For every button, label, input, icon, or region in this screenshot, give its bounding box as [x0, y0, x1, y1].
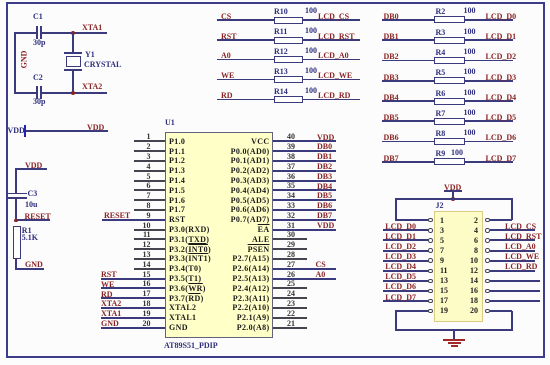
- resistor R7: [434, 118, 465, 125]
- wire C1 left: [14, 32, 36, 34]
- U1 pin 21: [273, 327, 307, 329]
- Y1 designator: [85, 50, 95, 59]
- U1 pin 15 (P3.5): [101, 278, 165, 280]
- net label LCD_D4: [486, 93, 517, 102]
- net label DB2: [384, 52, 399, 61]
- U1 pin 32: [273, 219, 336, 221]
- U1 pin 37: [273, 170, 336, 172]
- J2 pin 2: [490, 219, 512, 221]
- U1 pin 7 (P1.6): [134, 199, 165, 201]
- R9 value 100: [451, 148, 463, 157]
- net label CS: [221, 12, 231, 21]
- J2 pin 12: [490, 270, 535, 272]
- U1 pin 23: [273, 307, 307, 309]
- U1 part name AT89S51_PDIP: [164, 341, 218, 350]
- wire DB2 to R4: [382, 60, 435, 62]
- wire DB7 to R9: [382, 161, 435, 163]
- wire pin20 down: [511, 311, 513, 330]
- net label VDD (port wire): [87, 123, 104, 132]
- wire R10 to LCD_CS: [303, 19, 360, 21]
- J2 pin 14: [490, 280, 540, 282]
- U1 pin 12 (P3.2): [134, 248, 165, 250]
- U1 pin 26: [273, 278, 336, 280]
- wire R9 to LCD_D7: [465, 161, 513, 163]
- J2 designator: [436, 201, 444, 210]
- net label WE: [221, 71, 234, 80]
- J2 pin 6: [490, 239, 535, 241]
- wire VDD top rail: [395, 198, 513, 200]
- wire DB1 to R3: [382, 39, 435, 41]
- U1 pin 38: [273, 160, 336, 162]
- J2 pin 20: [490, 310, 512, 312]
- U1 pin 33: [273, 209, 336, 211]
- R9 designator: [436, 149, 446, 158]
- node VDD junction: [451, 197, 455, 201]
- wire DB5 to R7: [382, 120, 435, 122]
- net label LCD_RD: [318, 91, 350, 100]
- capacitor C3: [7, 193, 27, 195]
- R8 value 100: [464, 128, 476, 137]
- U1 pin 25: [273, 287, 307, 289]
- net label DB5: [384, 113, 399, 122]
- net label LCD_D5: [486, 113, 517, 122]
- net label LCD_WE: [318, 71, 352, 80]
- wire pin19 down: [395, 311, 397, 330]
- U1 pin 31: [273, 229, 336, 231]
- wire bottom gnd rail: [395, 329, 513, 331]
- wire CS to R10: [217, 19, 274, 21]
- wire DB4 to R6: [382, 100, 435, 102]
- ground symbol: [443, 339, 465, 341]
- R14 value 100: [305, 86, 317, 95]
- wire crystal top: [72, 33, 74, 53]
- R5 designator: [436, 68, 446, 77]
- wire VDD stub: [15, 168, 47, 170]
- J2 pin 11: [383, 270, 429, 272]
- net label DB3: [384, 73, 399, 82]
- wire R2 to LCD_D0: [465, 19, 513, 21]
- net label GND (reset circuit): [25, 260, 43, 269]
- net label LCD_D6: [486, 133, 517, 142]
- wire RST to R11: [217, 39, 274, 41]
- R2 designator: [436, 7, 446, 16]
- R11 value 100: [305, 26, 317, 35]
- resistor R2: [434, 16, 465, 23]
- wire R3 to LCD_D1: [465, 39, 513, 41]
- U1 pin 16 (P3.6): [101, 287, 165, 289]
- wire GND stub: [15, 268, 44, 270]
- net label DB1: [384, 32, 399, 41]
- R11 designator: [274, 27, 287, 36]
- U1 pin 5 (P1.4): [134, 180, 165, 182]
- wire RD to R14: [217, 99, 274, 101]
- U1 pin 22: [273, 317, 307, 319]
- R6 designator: [436, 89, 446, 98]
- U1 pin 20 (GND): [101, 327, 165, 329]
- net label LCD_D0: [486, 12, 517, 21]
- wire A0 to R12: [217, 59, 274, 61]
- R3 designator: [436, 28, 446, 37]
- J2 pin 5: [383, 239, 429, 241]
- wire GND rail left vertical: [14, 32, 16, 94]
- resistor R14: [274, 96, 303, 103]
- net label DB4: [384, 93, 399, 102]
- net label DB0: [384, 12, 399, 21]
- U1 pin 36: [273, 180, 336, 182]
- R1 value 5.1K: [22, 233, 38, 242]
- resistor R6: [434, 98, 465, 105]
- net label LCD_A0: [318, 51, 349, 60]
- R12 value 100: [305, 46, 317, 55]
- U1 pin 3 (P1.2): [134, 160, 165, 162]
- wire ground stem: [453, 330, 455, 339]
- wire C2 right to XTA2: [42, 92, 107, 94]
- op: U1 AT89S51 body: [165, 132, 274, 339]
- net label LCD_CS: [318, 12, 349, 21]
- wire R7 to LCD_D5: [465, 120, 513, 122]
- J2 pin 13: [383, 280, 429, 282]
- wire rail right vertical: [511, 199, 513, 221]
- U1 pin 30: [273, 238, 307, 240]
- U1 pin 10 (P3.0): [134, 229, 165, 231]
- capacitor C2: [36, 86, 38, 99]
- net label LCD_D2: [486, 52, 517, 61]
- C1 value 30p: [33, 38, 45, 47]
- node XTA2 junction: [71, 91, 75, 95]
- U1 pin 1 (P1.0): [134, 140, 165, 142]
- connector J2 body: [434, 211, 483, 323]
- J2 pin 10: [490, 260, 535, 262]
- net label A0: [221, 51, 231, 60]
- wire RESET stub: [15, 219, 50, 221]
- J2 pin 17: [383, 300, 429, 302]
- net label RD: [221, 91, 233, 100]
- J2 pin 18: [490, 300, 540, 302]
- U1 pin 2 (P1.1): [134, 150, 165, 152]
- wire rail left vertical: [395, 199, 397, 222]
- node reset junction: [14, 219, 18, 223]
- net label LCD_D3: [486, 73, 517, 82]
- capacitor C1 designator: [33, 12, 43, 21]
- wire WE to R13: [217, 79, 274, 81]
- resistor R11: [274, 37, 303, 44]
- R7 value 100: [464, 108, 476, 117]
- C3 designator: [28, 189, 38, 198]
- J2 pin 9: [383, 260, 429, 262]
- net label LCD_D1: [486, 32, 517, 41]
- J2 pin 3: [383, 229, 429, 231]
- U1 pin 11 (P3.1): [134, 238, 165, 240]
- port VDD: [8, 126, 25, 135]
- wire VDD port: [26, 130, 108, 132]
- capacitor C1: [36, 26, 38, 39]
- U1 pin 9 (RST): [102, 219, 165, 221]
- U1 pin 39: [273, 150, 336, 152]
- R13 value 100: [305, 66, 317, 75]
- resistor R5: [434, 77, 465, 84]
- net label RESET (rc): [25, 212, 51, 221]
- U1 designator: [165, 118, 175, 127]
- C2 value 30p: [33, 97, 45, 106]
- net label LCD_D7: [486, 154, 517, 163]
- wire R12 to LCD_A0: [303, 59, 360, 61]
- wire crystal bottom: [72, 70, 74, 93]
- U1 pin 6 (P1.5): [134, 189, 165, 191]
- Y1 value CRYSTAL: [84, 60, 121, 69]
- wire C2 left: [14, 92, 36, 94]
- J2 pin 16: [490, 290, 540, 292]
- R6 value 100: [464, 88, 476, 97]
- resistor R4: [434, 57, 465, 64]
- U1 pin 4 (P1.3): [134, 170, 165, 172]
- U1 pin 13 (P3.3): [134, 258, 165, 260]
- U1 pin 29: [273, 248, 307, 250]
- U1 pin 34: [273, 199, 336, 201]
- resistor R3: [434, 37, 465, 44]
- resistor R1: [13, 226, 21, 259]
- J2 pin 8: [490, 250, 535, 252]
- R8 designator: [436, 129, 446, 138]
- wire R8 to LCD_D6: [465, 141, 513, 143]
- U1 pin 19 (XTAL1): [101, 317, 165, 319]
- resistor R12: [274, 56, 303, 63]
- wire C3 to RESET node: [15, 199, 17, 222]
- R4 designator: [436, 48, 446, 57]
- U1 pin 24: [273, 297, 307, 299]
- U1 pin 35: [273, 189, 336, 191]
- R3 value 100: [464, 27, 476, 36]
- J2 pin 7: [383, 250, 429, 252]
- net label DB6: [384, 133, 399, 142]
- net label GND (rotated): [20, 42, 29, 78]
- resistor R8: [434, 138, 465, 145]
- net label XTA2: [82, 82, 102, 91]
- U1 pin 40: [273, 140, 336, 142]
- R14 designator: [274, 87, 288, 96]
- net label XTA1: [82, 23, 102, 32]
- R13 designator: [274, 67, 288, 76]
- wire DB3 to R5: [382, 80, 435, 82]
- wire R1 to GND: [15, 259, 17, 269]
- R7 designator: [436, 109, 446, 118]
- R2 value 100: [464, 6, 476, 15]
- R12 designator: [274, 47, 288, 56]
- wire C1 right to XTA1: [42, 32, 107, 34]
- wire R11 to LCD_RST: [303, 39, 360, 41]
- J2 pin 15: [383, 290, 429, 292]
- wire VDD down to C3: [15, 169, 17, 194]
- crystal Y1: [64, 52, 82, 54]
- R1 designator: [22, 226, 32, 235]
- net label RST: [221, 32, 237, 41]
- R5 value 100: [464, 67, 476, 76]
- U1 pin 8 (P1.7): [134, 209, 165, 211]
- R4 value 100: [464, 47, 476, 56]
- U1 pin 17 (P3.7): [101, 297, 165, 299]
- net label VDD (reset circuit): [25, 161, 42, 170]
- C3 value 10u: [25, 200, 37, 209]
- net label DB7: [384, 154, 399, 163]
- wire R5 to LCD_D3: [465, 80, 513, 82]
- resistor R9: [434, 158, 465, 165]
- J2 pin 1: [395, 219, 429, 221]
- U1 pin 27: [273, 268, 336, 270]
- node XTA1 junction: [71, 31, 75, 35]
- U1 pin 18 (XTAL2): [101, 307, 165, 309]
- wire DB6 to R8: [382, 141, 435, 143]
- J2 pin 4: [490, 229, 535, 231]
- power symbol VDD above J2: [444, 183, 461, 192]
- wire R6 to LCD_D4: [465, 100, 513, 102]
- R10 value 100: [305, 6, 317, 15]
- resistor R13: [274, 76, 303, 83]
- wire DB0 to R2: [382, 19, 435, 21]
- U1 pin 28: [273, 258, 307, 260]
- wire R14 to LCD_RD: [303, 99, 360, 101]
- R10 designator: [274, 7, 288, 16]
- wire R4 to LCD_D2: [465, 60, 513, 62]
- U1 pin 14 (P3.4): [134, 268, 165, 270]
- capacitor C2 designator: [33, 73, 43, 82]
- J2 pin 19: [395, 310, 429, 312]
- wire R13 to LCD_WE: [303, 79, 360, 81]
- resistor R10: [274, 17, 303, 24]
- net label LCD_RST: [318, 32, 354, 41]
